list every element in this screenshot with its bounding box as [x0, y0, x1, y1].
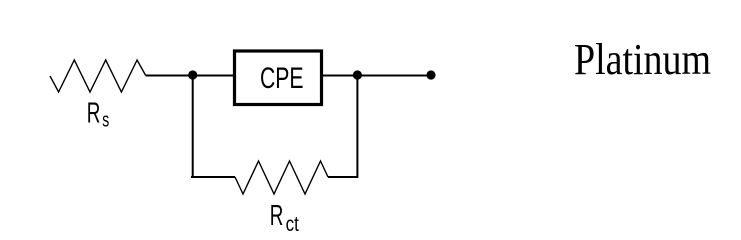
svg-text:s: s [102, 110, 109, 132]
svg-text:R: R [87, 98, 101, 130]
svg-text:CPE: CPE [260, 62, 304, 95]
svg-text:R: R [270, 200, 284, 232]
svg-text:ct: ct [286, 213, 299, 236]
svg-text:Platinum: Platinum [574, 35, 711, 84]
